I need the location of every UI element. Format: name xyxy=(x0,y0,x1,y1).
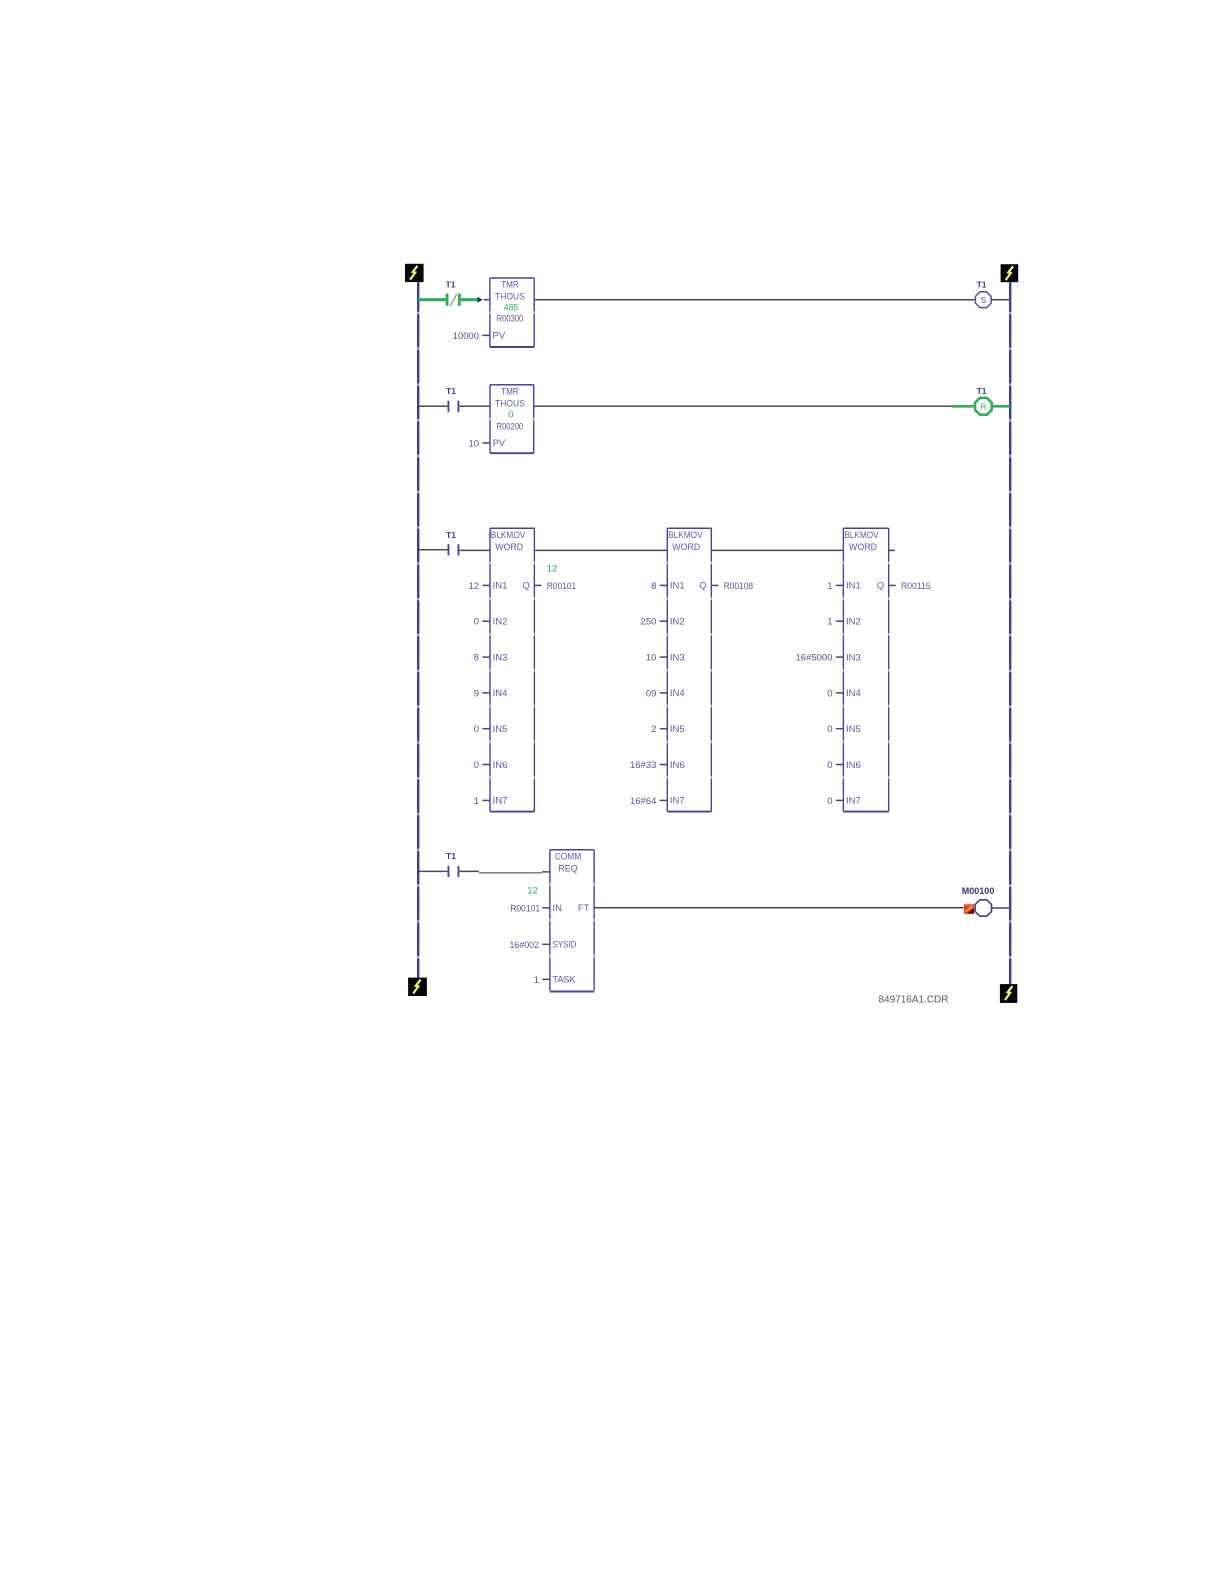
svg-text:PV: PV xyxy=(493,438,506,449)
svg-text:SYSID: SYSID xyxy=(553,940,577,951)
BLKMOV2 Q output: R00108 xyxy=(711,581,753,592)
svg-text:T1: T1 xyxy=(446,851,456,861)
svg-text:16#5000: 16#5000 xyxy=(796,653,833,664)
contact T1 rung 4 (normally open) xyxy=(448,866,460,877)
BLKMOV1 IN1 input stub, value 12 xyxy=(469,581,490,592)
svg-text:9: 9 xyxy=(474,688,479,699)
svg-text:WORD: WORD xyxy=(495,542,523,553)
BLKMOV1 IN2 input stub, value 0 xyxy=(474,617,490,628)
svg-text:T1: T1 xyxy=(446,280,456,290)
rung 2 wire: power flow into reset coil (green) xyxy=(952,405,975,408)
svg-text:0: 0 xyxy=(827,760,832,771)
negated power-flow icon (red) xyxy=(964,904,974,914)
svg-text:IN3: IN3 xyxy=(493,652,508,663)
svg-text:TMR: TMR xyxy=(501,280,519,291)
svg-text:BLKMOV: BLKMOV xyxy=(844,530,879,541)
svg-text:0: 0 xyxy=(474,760,479,771)
svg-text:R00300: R00300 xyxy=(497,314,524,325)
contact T1 rung 2 (normally open) xyxy=(448,401,460,412)
rung 2 wire: coil to right rail (green) xyxy=(992,405,1010,408)
svg-text:PV: PV xyxy=(493,331,506,342)
svg-text:WORD: WORD xyxy=(672,542,700,553)
rung 4 wire: FT output to coil xyxy=(594,907,964,909)
right power rail xyxy=(1009,282,1011,984)
rung 3 wire: BLKMOV2 to BLKMOV3 xyxy=(711,549,843,551)
svg-text:IN5: IN5 xyxy=(670,724,685,735)
function block COMM REQ xyxy=(550,850,594,992)
function block BLKMOV WORD #3 (R00115) xyxy=(843,528,888,811)
svg-text:IN7: IN7 xyxy=(670,796,685,807)
svg-text:1: 1 xyxy=(534,975,539,986)
top-left power connection bolt xyxy=(405,264,424,282)
svg-text:IN4: IN4 xyxy=(846,688,861,699)
BLKMOV2 IN6 input stub, value 16#33 xyxy=(630,760,667,771)
svg-text:1: 1 xyxy=(827,617,832,628)
svg-text:10: 10 xyxy=(646,653,657,664)
BLKMOV1 IN6 input stub, value 0 xyxy=(474,760,490,771)
power-flow arrow into TMR block xyxy=(477,297,483,303)
rung 4 wire: coil to right rail xyxy=(992,907,1011,909)
svg-text:IN3: IN3 xyxy=(846,652,861,663)
svg-text:IN4: IN4 xyxy=(670,688,685,699)
function block TMR THOUS (timer T1, R00200) xyxy=(490,385,534,453)
output coil M00100 xyxy=(975,900,991,916)
left power rail xyxy=(417,282,419,978)
svg-text:2: 2 xyxy=(651,724,656,735)
rung 3 wire: left rail to contact xyxy=(418,549,447,551)
svg-text:COMM: COMM xyxy=(555,852,582,863)
svg-text:TASK: TASK xyxy=(553,975,577,986)
BLKMOV1 IN3 input stub, value 8 xyxy=(474,653,490,664)
BLKMOV3 IN1 input stub, value 1 xyxy=(827,581,843,592)
svg-text:THOUS: THOUS xyxy=(495,291,525,302)
svg-text:10: 10 xyxy=(469,438,480,449)
BLKMOV3 IN4 input stub, value 0 xyxy=(827,688,843,699)
svg-text:12: 12 xyxy=(527,886,538,897)
rung 4 wire: left rail to contact xyxy=(418,870,447,872)
svg-text:R00101: R00101 xyxy=(510,903,540,914)
BLKMOV2 IN1 input stub, value 8 xyxy=(651,581,667,592)
rung 1 wire: arrow to TMR block xyxy=(484,299,490,301)
svg-text:Q: Q xyxy=(522,581,529,592)
svg-text:8: 8 xyxy=(474,653,479,664)
bottom-right power connection bolt xyxy=(1000,984,1017,1003)
svg-text:IN1: IN1 xyxy=(493,581,508,592)
svg-text:S: S xyxy=(981,295,987,305)
svg-text:M00100: M00100 xyxy=(962,886,995,896)
rung 3 power stub out of BLKMOV3 xyxy=(889,549,895,551)
svg-text:IN2: IN2 xyxy=(493,617,508,628)
svg-text:09: 09 xyxy=(646,688,657,699)
svg-text:IN2: IN2 xyxy=(670,617,685,628)
TMR2 PV input stub, preset value 10 xyxy=(469,438,490,449)
function block BLKMOV WORD #1 (R00101) xyxy=(490,528,534,811)
rung 2 wire: TMR output toward reset coil xyxy=(534,405,952,407)
BLKMOV3 IN5 input stub, value 0 xyxy=(827,724,843,735)
TMR1 PV input stub, preset value 10000 xyxy=(453,331,490,342)
svg-text:Q: Q xyxy=(699,581,706,592)
svg-text:IN4: IN4 xyxy=(493,688,508,699)
rung 1 wire: coil to right rail xyxy=(991,299,1010,301)
BLKMOV1 IN5 input stub, value 0 xyxy=(474,724,490,735)
set coil T1 (S) xyxy=(975,292,991,308)
svg-text:12: 12 xyxy=(469,581,480,592)
bottom-left power connection bolt xyxy=(408,978,427,996)
svg-text:THOUS: THOUS xyxy=(495,398,525,409)
function block BLKMOV WORD #2 (R00108) xyxy=(667,528,711,811)
rung 3 wire: BLKMOV1 to BLKMOV2 xyxy=(534,549,667,551)
svg-text:16#33: 16#33 xyxy=(630,760,656,771)
svg-text:1: 1 xyxy=(827,581,832,592)
svg-text:T1: T1 xyxy=(977,386,987,396)
svg-text:485: 485 xyxy=(504,303,519,314)
BLKMOV3 IN3 input stub, value 16#5000 xyxy=(796,653,844,664)
COMM REQ IN input: green 12 over R00101 xyxy=(510,886,550,915)
svg-text:R00101: R00101 xyxy=(547,581,577,592)
COMM REQ TASK input, value 1 xyxy=(534,975,550,986)
svg-text:0: 0 xyxy=(508,409,513,420)
svg-text:IN7: IN7 xyxy=(493,796,508,807)
svg-text:0: 0 xyxy=(474,724,479,735)
BLKMOV2 IN2 input stub, value 250 xyxy=(641,617,668,628)
svg-text:0: 0 xyxy=(827,724,832,735)
svg-text:16#002: 16#002 xyxy=(510,940,540,951)
svg-text:IN7: IN7 xyxy=(846,796,861,807)
svg-text:IN1: IN1 xyxy=(670,581,685,592)
BLKMOV3 IN6 input stub, value 0 xyxy=(827,760,843,771)
BLKMOV1 Q output: 12 / R00101 xyxy=(534,564,576,592)
svg-text:16#64: 16#64 xyxy=(630,796,656,807)
rung 1 wire: contact to arrow (green) xyxy=(461,298,478,301)
svg-text:IN: IN xyxy=(553,903,563,914)
reset coil T1 (R), energized xyxy=(975,398,992,415)
contact T1 rung 1 (normally closed, energized) xyxy=(446,294,461,306)
rung 4 wire: contact to COMM block (navy segment) xyxy=(460,870,479,872)
function block TMR THOUS (timer T1, R00300) xyxy=(490,278,534,347)
svg-text:T1: T1 xyxy=(446,386,456,396)
svg-text:IN6: IN6 xyxy=(670,760,685,771)
svg-text:849716A1.CDR: 849716A1.CDR xyxy=(878,994,948,1005)
BLKMOV3 Q output: R00115 xyxy=(889,581,931,592)
BLKMOV3 IN7 input stub, value 0 xyxy=(827,796,843,807)
svg-text:BLKMOV: BLKMOV xyxy=(668,530,703,541)
svg-text:IN1: IN1 xyxy=(846,581,861,592)
contact T1 rung 3 (normally open) xyxy=(448,544,460,555)
svg-text:12: 12 xyxy=(547,564,558,575)
svg-text:IN6: IN6 xyxy=(846,760,861,771)
svg-text:REQ: REQ xyxy=(558,863,577,874)
svg-text:WORD: WORD xyxy=(849,542,877,553)
COMM REQ SYSID input, value 16#002 xyxy=(510,940,550,951)
rung 2 wire: left rail to contact xyxy=(418,405,447,407)
svg-text:R: R xyxy=(980,402,986,412)
svg-text:BLKMOV: BLKMOV xyxy=(491,530,526,541)
svg-text:T1: T1 xyxy=(446,530,456,540)
svg-text:8: 8 xyxy=(651,581,656,592)
BLKMOV2 IN5 input stub, value 2 xyxy=(651,724,667,735)
svg-text:IN5: IN5 xyxy=(846,724,861,735)
svg-text:0: 0 xyxy=(474,617,479,628)
rung 1 wire: TMR output to set coil xyxy=(534,299,975,301)
svg-text:TMR: TMR xyxy=(501,387,519,398)
svg-text:R00115: R00115 xyxy=(901,581,931,592)
rung 2 wire: contact to TMR block xyxy=(460,405,490,407)
svg-text:IN2: IN2 xyxy=(846,617,861,628)
rung 3 wire: contact to BLKMOV1 xyxy=(460,549,490,551)
svg-text:0: 0 xyxy=(827,688,832,699)
svg-text:1: 1 xyxy=(474,796,479,807)
rung 4 wire: into COMM block xyxy=(542,871,550,873)
svg-text:IN5: IN5 xyxy=(493,724,508,735)
rung 4 wire: gray mid segment xyxy=(479,872,542,874)
svg-text:R00108: R00108 xyxy=(724,581,754,592)
svg-text:FT: FT xyxy=(578,903,590,914)
svg-text:IN6: IN6 xyxy=(493,760,508,771)
rung 1 wire: left rail to contact (power flow, green) xyxy=(418,298,445,301)
BLKMOV1 IN7 input stub, value 1 xyxy=(474,796,490,807)
svg-text:R00200: R00200 xyxy=(497,421,524,432)
top-right power connection bolt xyxy=(1001,264,1019,282)
BLKMOV2 IN4 input stub, value 09 xyxy=(646,688,667,699)
svg-text:T1: T1 xyxy=(977,280,987,290)
svg-text:250: 250 xyxy=(641,617,657,628)
svg-text:10000: 10000 xyxy=(453,331,479,342)
svg-text:0: 0 xyxy=(827,796,832,807)
BLKMOV1 IN4 input stub, value 9 xyxy=(474,688,490,699)
svg-text:IN3: IN3 xyxy=(670,652,685,663)
svg-text:Q: Q xyxy=(877,581,884,592)
BLKMOV3 IN2 input stub, value 1 xyxy=(827,617,843,628)
BLKMOV2 IN7 input stub, value 16#64 xyxy=(630,796,667,807)
BLKMOV2 IN3 input stub, value 10 xyxy=(646,653,667,664)
